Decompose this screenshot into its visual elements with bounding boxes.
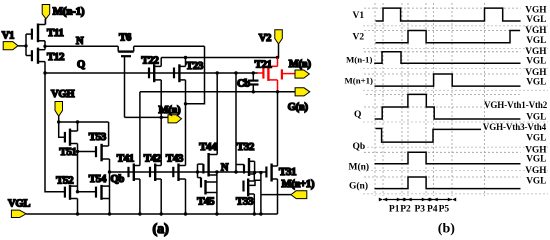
capacitor Cb xyxy=(248,71,259,93)
label T22 xyxy=(141,55,159,67)
wire M(n+1) line xyxy=(261,195,291,214)
pin M(n-1) xyxy=(42,5,50,25)
pin M(n) output right xyxy=(295,70,309,78)
label VGL V2 level xyxy=(526,36,546,46)
grid level extension lines xyxy=(364,8,521,177)
label M(n+1) xyxy=(282,179,315,190)
waveform V2 xyxy=(376,31,521,43)
node Q label xyxy=(77,60,85,71)
svg-text:Q: Q xyxy=(354,110,361,120)
label T31 xyxy=(279,166,296,178)
pin VGL xyxy=(11,210,26,217)
transistor T11 xyxy=(26,19,45,47)
label VGH-Vth1-Vth2 Q level xyxy=(484,100,548,110)
transistor T12 xyxy=(26,46,45,73)
transistor T44 xyxy=(198,153,218,178)
label T52 xyxy=(56,174,74,186)
svg-text:VGL: VGL xyxy=(8,199,30,210)
label T53 xyxy=(89,131,107,143)
label VGL M(n-1) level xyxy=(526,57,546,67)
label VGH G(n) level xyxy=(525,166,547,176)
label VGH M(n+1) level xyxy=(525,68,547,78)
phase axis arrow marks xyxy=(379,198,456,202)
svg-text:P5: P5 xyxy=(439,205,450,215)
pin VGH xyxy=(55,102,63,123)
wire N line right segment xyxy=(134,45,205,47)
label VGH M(n-1) level xyxy=(525,47,547,57)
svg-text:M(n-1): M(n-1) xyxy=(53,6,85,18)
svg-text:VGL: VGL xyxy=(526,57,546,67)
waveform G(n) xyxy=(375,177,521,189)
svg-text:T22: T22 xyxy=(141,55,159,67)
svg-text:Qb: Qb xyxy=(111,174,125,185)
svg-text:VGL: VGL xyxy=(526,177,546,187)
node Q junction xyxy=(43,71,46,74)
wire Q left branch down to T52 gate xyxy=(45,73,65,192)
node rail junctions xyxy=(76,212,263,215)
svg-text:M(n+1): M(n+1) xyxy=(345,75,374,85)
waveform Q xyxy=(375,94,521,119)
label V2 xyxy=(259,33,271,44)
node V2 junction xyxy=(276,56,279,59)
transistor T54 xyxy=(78,185,110,200)
svg-text:P4: P4 xyxy=(427,205,438,215)
wire VGL rail xyxy=(26,213,277,215)
label T41 xyxy=(117,152,134,164)
node V1 junction xyxy=(24,44,27,47)
transistor T33 xyxy=(244,179,261,215)
node T44 gate junction xyxy=(196,170,199,173)
svg-text:P2: P2 xyxy=(400,205,411,215)
svg-text:(b): (b) xyxy=(438,222,455,237)
svg-text:M(n): M(n) xyxy=(349,162,370,173)
transistor T22 xyxy=(149,58,161,118)
transistor T52 xyxy=(65,185,78,214)
svg-text:N: N xyxy=(221,162,229,173)
svg-text:T54: T54 xyxy=(89,173,107,185)
svg-text:VGH-Vth1-Vth2: VGH-Vth1-Vth2 xyxy=(484,100,548,110)
label T43 xyxy=(166,152,184,164)
node T32 gate junction xyxy=(234,170,237,173)
svg-text:T45: T45 xyxy=(197,196,215,208)
label T42 xyxy=(144,152,162,164)
wire M(n+1) row riser xyxy=(259,171,262,195)
label M(n-1) (b) xyxy=(346,55,372,65)
wire G(n) branch down to T41 xyxy=(139,92,141,166)
waveform Qb xyxy=(376,129,482,143)
svg-text:VGH-Vth3-Vth4: VGH-Vth3-Vth4 xyxy=(483,122,547,132)
wire Qb row line xyxy=(108,170,267,173)
pin M(n) xyxy=(168,115,182,123)
svg-text:T6: T6 xyxy=(119,32,132,44)
label VGL M(n) level xyxy=(526,155,546,165)
wire Q branch to T44 drain xyxy=(216,71,219,154)
waveform M(n-1) xyxy=(374,52,520,63)
label Q (b) xyxy=(354,110,361,120)
svg-text:VGH: VGH xyxy=(525,26,547,36)
label G(n) xyxy=(288,102,309,113)
svg-text:(a): (a) xyxy=(153,222,170,237)
label M(n+1) (b) xyxy=(345,75,374,85)
svg-text:VGH: VGH xyxy=(525,68,547,78)
svg-text:VGL: VGL xyxy=(526,15,546,25)
svg-text:VGH: VGH xyxy=(51,89,74,100)
svg-text:T12: T12 xyxy=(47,51,65,63)
svg-text:Q: Q xyxy=(77,60,85,71)
label VGH V1 level xyxy=(525,5,547,15)
node T53 gate junction xyxy=(76,150,79,153)
svg-text:G(n): G(n) xyxy=(288,102,309,113)
transistor T43 xyxy=(173,164,185,215)
label M(n) xyxy=(159,105,182,116)
label T6 xyxy=(119,32,132,44)
svg-text:T44: T44 xyxy=(199,141,217,153)
svg-text:V1: V1 xyxy=(353,11,365,21)
svg-text:T42: T42 xyxy=(144,152,162,164)
label VGL Q level xyxy=(526,113,546,123)
grid horizontal separators xyxy=(363,26,548,194)
svg-text:T53: T53 xyxy=(89,131,107,143)
svg-text:Cb: Cb xyxy=(237,79,250,90)
svg-text:VGH: VGH xyxy=(525,47,547,57)
node N label xyxy=(76,36,84,47)
svg-text:M(n+1): M(n+1) xyxy=(282,179,315,190)
label VGL G(n) level xyxy=(526,177,546,187)
svg-text:M(n): M(n) xyxy=(289,59,312,70)
wire VGH line xyxy=(57,120,109,123)
svg-text:VGL: VGL xyxy=(526,36,546,46)
pin G(n) xyxy=(295,88,310,96)
label T11 xyxy=(47,27,64,39)
label VGH-Vth3-Vth4 Qb level xyxy=(483,122,547,132)
label VGL M(n+1) level xyxy=(526,78,546,88)
transistor T41 xyxy=(129,164,140,215)
label T21 xyxy=(255,58,272,70)
svg-text:VGL: VGL xyxy=(526,134,546,144)
label T32 xyxy=(237,141,255,153)
svg-text:T41: T41 xyxy=(117,152,134,164)
svg-text:T32: T32 xyxy=(237,141,255,153)
label V2 (b) xyxy=(353,33,365,43)
label V1 (b) xyxy=(353,11,365,21)
label VGL Qb level xyxy=(526,134,546,144)
label T51 xyxy=(59,146,76,158)
label M(n) (b) xyxy=(349,162,370,173)
wire Q branch to T32 region xyxy=(234,71,237,172)
node Qb label xyxy=(111,174,125,185)
svg-text:T11: T11 xyxy=(47,27,64,39)
label T44 xyxy=(199,141,217,153)
node N label lower xyxy=(221,162,229,173)
svg-text:T52: T52 xyxy=(56,174,74,186)
wire M(n) line xyxy=(125,116,169,118)
svg-text:VGH: VGH xyxy=(525,5,547,15)
transistor T23 xyxy=(174,58,186,166)
wire V2 drain bus xyxy=(161,57,277,59)
svg-text:T51: T51 xyxy=(59,146,76,158)
svg-text:VGL: VGL xyxy=(526,78,546,88)
node T54 gate junction xyxy=(76,190,79,193)
svg-text:VGH: VGH xyxy=(525,166,547,176)
transistor T42 xyxy=(150,117,161,214)
svg-text:P3: P3 xyxy=(415,205,426,215)
transistor T31 xyxy=(266,92,277,195)
svg-text:V1: V1 xyxy=(2,31,14,42)
label P2 xyxy=(400,205,411,215)
label T54 xyxy=(89,173,107,185)
label T12 xyxy=(47,51,65,63)
svg-text:T31: T31 xyxy=(279,166,296,178)
transistor T45 xyxy=(198,178,217,195)
pin V2 xyxy=(275,30,283,58)
wire G(n) line xyxy=(140,91,295,93)
transistor T51 xyxy=(59,122,78,192)
wire V1 gate bus xyxy=(25,34,27,55)
label VGH M(n) level xyxy=(525,146,547,156)
label T45 xyxy=(197,196,215,208)
node T23 drain junction xyxy=(184,56,187,59)
label VGL V1 level xyxy=(526,15,546,25)
grid vertical phase lines xyxy=(375,3,485,196)
waveform V1 xyxy=(376,8,521,21)
label G(n) (b) xyxy=(349,181,368,192)
label Qb (b) xyxy=(353,142,366,152)
caption (a) xyxy=(153,222,170,237)
svg-text:T33: T33 xyxy=(236,196,254,208)
svg-text:V2: V2 xyxy=(353,33,365,43)
transistor T6 xyxy=(118,46,134,117)
wire N line left segment xyxy=(45,45,118,47)
label M(n) right xyxy=(289,59,312,70)
transistor T32 xyxy=(236,158,255,181)
svg-text:P1: P1 xyxy=(389,205,400,215)
wire Q line xyxy=(45,72,258,74)
node N branch junction xyxy=(184,102,187,105)
svg-text:G(n): G(n) xyxy=(349,181,368,192)
pin M(n+1) xyxy=(291,191,307,199)
svg-text:M(n): M(n) xyxy=(159,105,182,116)
label M(n-1) xyxy=(53,6,85,18)
node T21 source junction on G line xyxy=(276,90,279,93)
waveform M(n+1) xyxy=(375,74,521,86)
label P4 xyxy=(427,205,438,215)
svg-text:VGL: VGL xyxy=(526,155,546,165)
label P1 xyxy=(389,205,400,215)
svg-text:T43: T43 xyxy=(166,152,184,164)
label P5 xyxy=(439,205,450,215)
svg-text:V2: V2 xyxy=(259,33,271,44)
transistor T21 (red) xyxy=(258,58,296,92)
label VGL xyxy=(8,199,30,210)
label T23 xyxy=(186,60,204,72)
label VGH V2 level xyxy=(525,26,547,36)
svg-text:N: N xyxy=(76,36,84,47)
transistor T53 xyxy=(78,122,110,214)
svg-text:T23: T23 xyxy=(186,60,204,72)
label Cb xyxy=(237,79,250,90)
label P3 xyxy=(415,205,426,215)
svg-text:T21: T21 xyxy=(255,58,272,70)
caption (b) xyxy=(438,222,455,237)
waveform M(n) xyxy=(375,152,521,164)
pin V1 xyxy=(3,42,26,50)
node M(n) junction xyxy=(160,116,163,119)
label T33 xyxy=(236,196,254,208)
label V1 xyxy=(2,31,14,42)
wire N mid vertical T44-T45 xyxy=(215,170,218,214)
wire N vertical to lower branch xyxy=(186,46,205,104)
node N junction at T11 source xyxy=(43,45,46,48)
svg-text:Qb: Qb xyxy=(353,142,366,152)
phase axis line xyxy=(383,199,452,201)
label VGH xyxy=(51,89,74,100)
node T32 drain junction on row xyxy=(253,171,256,174)
svg-text:M(n-1): M(n-1) xyxy=(346,55,372,65)
